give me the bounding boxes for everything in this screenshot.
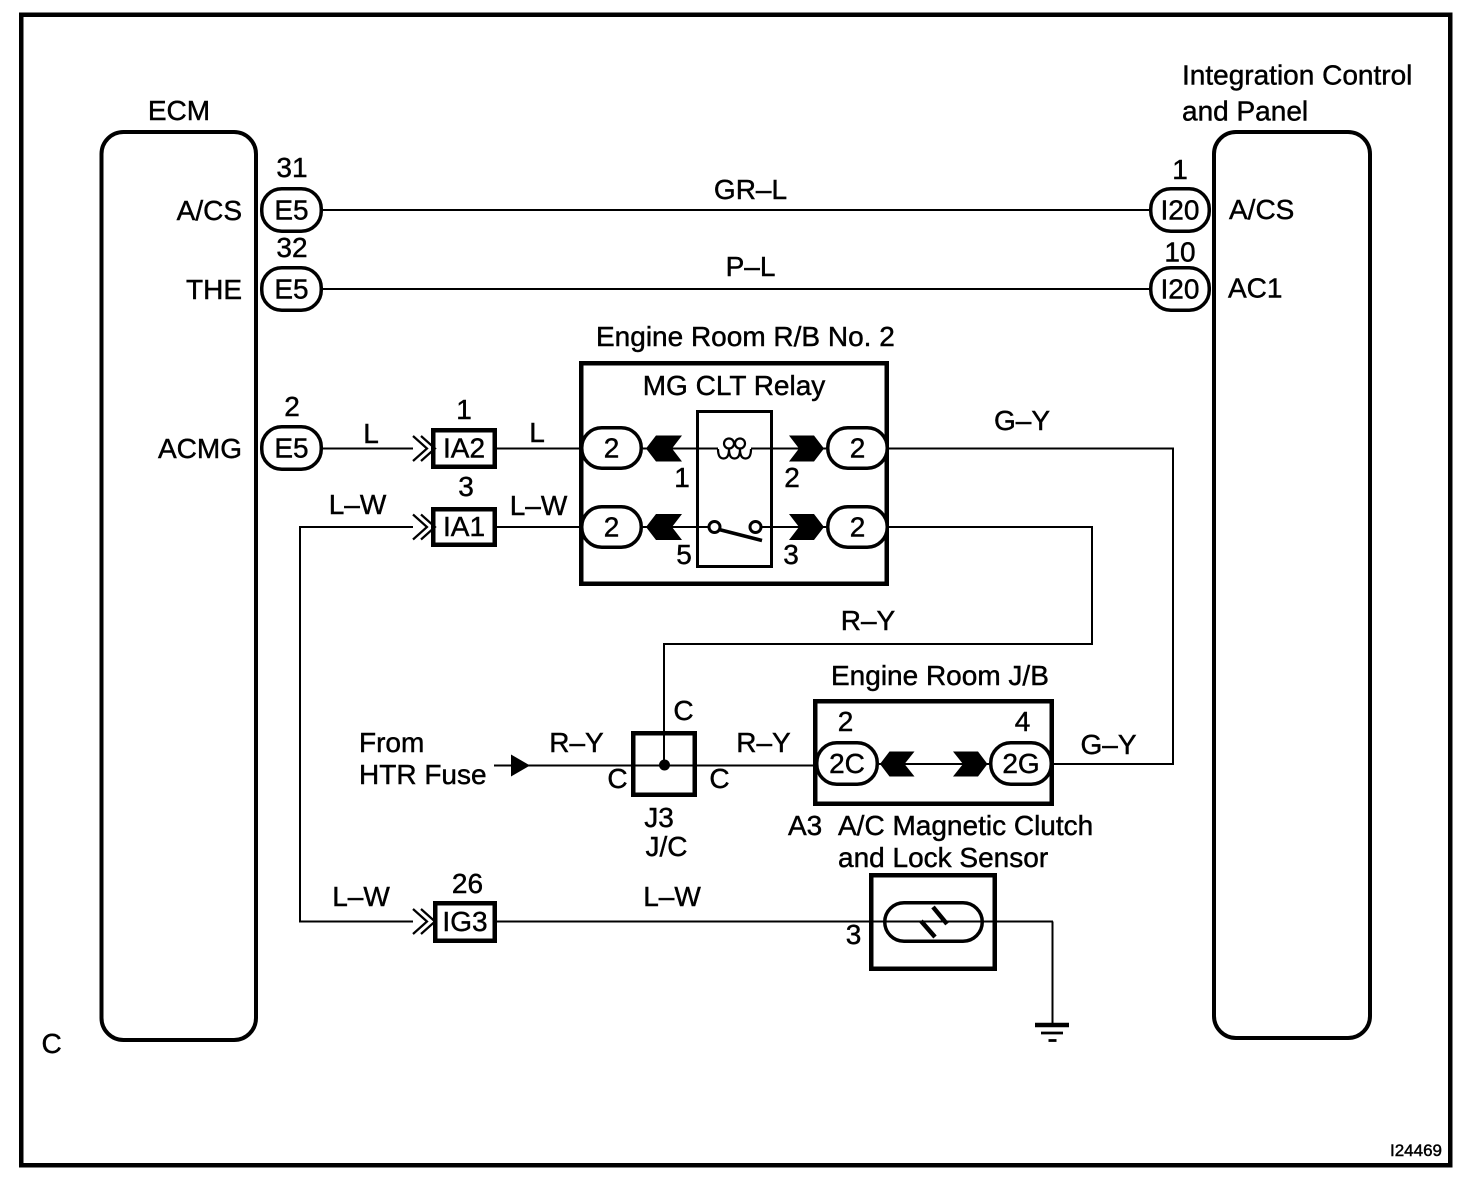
svg-text:1: 1: [674, 462, 690, 493]
svg-text:2: 2: [784, 462, 800, 493]
A/C magnetic clutch and lock sensor box: [871, 875, 995, 969]
J/B internal wire: [879, 763, 989, 765]
arrow marker left (coil row): [646, 436, 682, 462]
svg-text:3: 3: [783, 539, 799, 570]
sensor diagonal stroke 2: [933, 907, 947, 924]
relay connector oval 2 (top-left): [582, 428, 642, 469]
svg-text:I20: I20: [1161, 274, 1200, 305]
connector E5 pin 31: [262, 189, 322, 232]
ground symbol: [1035, 1023, 1069, 1028]
svg-text:L: L: [363, 418, 379, 449]
wire G-Y (relay pin2 to 2G / panel): [889, 449, 1173, 765]
svg-text:2C: 2C: [829, 748, 865, 779]
relay coil L1: [718, 449, 751, 459]
svg-text:E5: E5: [274, 433, 308, 464]
svg-text:L–W: L–W: [643, 881, 701, 912]
svg-text:Engine Room R/B No. 2: Engine Room R/B No. 2: [596, 321, 895, 352]
connector 2C: [817, 743, 878, 785]
svg-text:R–Y: R–Y: [736, 727, 791, 758]
svg-text:E5: E5: [274, 195, 308, 226]
svg-text:3: 3: [846, 919, 862, 950]
wire L-W (IG3 to sensor to ground): [497, 921, 1053, 923]
wire L-W (IA1 to relay): [497, 526, 581, 528]
svg-text:J3: J3: [644, 802, 674, 833]
relay switch blade: [719, 530, 762, 541]
svg-text:THE: THE: [186, 274, 242, 305]
arrow marker right (into 2G): [953, 752, 988, 777]
svg-text:A/C Magnetic Clutch: A/C Magnetic Clutch: [838, 810, 1093, 841]
svg-text:2G: 2G: [1002, 748, 1039, 779]
svg-text:A/CS: A/CS: [177, 195, 242, 226]
svg-text:C: C: [709, 763, 729, 794]
svg-text:IA1: IA1: [443, 511, 485, 542]
wire P-L (THE to I20): [323, 288, 1149, 290]
svg-text:2: 2: [604, 433, 620, 464]
svg-text:2: 2: [850, 512, 866, 543]
svg-text:R–Y: R–Y: [841, 605, 896, 636]
connector IA1: [433, 509, 495, 545]
svg-text:E5: E5: [274, 274, 308, 305]
svg-text:GR–L: GR–L: [714, 174, 787, 205]
relay switch feed wire (pin5 row): [643, 526, 711, 528]
svg-text:L–W: L–W: [332, 881, 390, 912]
relay connector oval 2 (bottom-left): [582, 507, 642, 548]
svg-text:and Lock Sensor: and Lock Sensor: [838, 842, 1048, 873]
wire GR-L (A/CS to I20): [323, 209, 1149, 211]
connector E5 pin 32: [262, 268, 322, 311]
svg-text:IG3: IG3: [442, 906, 487, 937]
MG CLT relay inner box: [698, 412, 772, 567]
svg-text:Engine Room J/B: Engine Room J/B: [831, 660, 1049, 691]
wire L (E5 ACMG to IA2): [323, 448, 413, 450]
svg-text:L–W: L–W: [510, 490, 568, 521]
connector IA2: [433, 430, 495, 467]
svg-text:L–W: L–W: [329, 489, 387, 520]
svg-text:MG CLT Relay: MG CLT Relay: [643, 370, 826, 401]
svg-text:5: 5: [676, 539, 692, 570]
svg-text:A/CS: A/CS: [1229, 194, 1294, 225]
connector E5 pin 2: [262, 427, 322, 470]
svg-text:P–L: P–L: [726, 251, 776, 282]
sensor diagonal stroke 1: [921, 921, 935, 937]
arrow marker right (coil row): [789, 436, 824, 462]
relay connector oval 2 (bottom-right): [828, 507, 888, 548]
wire L (IA2 to relay): [497, 448, 581, 450]
svg-text:ACMG: ACMG: [158, 433, 242, 464]
svg-text:A3: A3: [788, 810, 822, 841]
ground wire: [1052, 922, 1054, 1026]
relay coil feed wire (node through relay box, pin1 row): [643, 448, 718, 450]
Integration Control and Panel block: [1214, 132, 1370, 1038]
svg-text:2: 2: [838, 706, 854, 737]
svg-text:4: 4: [1015, 706, 1031, 737]
svg-text:1: 1: [456, 394, 472, 425]
wire R-Y (relay pin3 down to J3 junction): [664, 527, 1092, 765]
svg-text:AC1: AC1: [1228, 273, 1282, 304]
svg-text:I24469: I24469: [1390, 1141, 1442, 1160]
connector I20 pin 1: [1151, 189, 1210, 232]
arrow marker left (into 2C): [880, 752, 915, 777]
svg-text:G–Y: G–Y: [994, 405, 1050, 436]
svg-text:IA2: IA2: [443, 433, 485, 464]
junction dot node C: [659, 760, 670, 771]
svg-text:and Panel: and Panel: [1182, 96, 1308, 127]
wire L-W vertical from IA1 feed down to IG3 feed: [300, 527, 413, 922]
wire R-Y (HTR fuse to J3 and to 2C): [494, 765, 815, 767]
svg-text:32: 32: [276, 232, 307, 263]
splice chevrons IG3: [413, 909, 435, 934]
arrow marker right (switch row): [789, 514, 824, 540]
svg-text:C: C: [673, 695, 693, 726]
svg-text:31: 31: [276, 152, 307, 183]
svg-text:C: C: [607, 763, 627, 794]
svg-text:C: C: [42, 1028, 62, 1059]
svg-text:From: From: [359, 727, 424, 758]
ECM block U-ECM: [102, 132, 257, 1040]
svg-text:ECM: ECM: [148, 95, 210, 126]
splice chevrons IA2: [413, 436, 435, 461]
svg-text:2: 2: [850, 433, 866, 464]
svg-text:26: 26: [452, 868, 483, 899]
splice chevrons IA1: [413, 515, 435, 540]
svg-text:L: L: [529, 417, 545, 448]
relay switch contact left: [709, 522, 720, 533]
relay switch contact right: [750, 522, 761, 533]
connector IG3: [435, 903, 495, 941]
Engine Room J/B block: [815, 701, 1052, 804]
svg-text:1: 1: [1172, 154, 1188, 185]
svg-text:10: 10: [1164, 237, 1195, 268]
svg-text:Integration Control: Integration Control: [1182, 60, 1412, 91]
svg-text:I20: I20: [1161, 195, 1200, 226]
svg-text:3: 3: [458, 471, 474, 502]
connector 2G: [991, 743, 1052, 785]
junction block J3 box: [633, 733, 695, 795]
svg-text:2: 2: [604, 512, 620, 543]
svg-text:HTR Fuse: HTR Fuse: [359, 759, 487, 790]
relay connector oval 2 (top-right): [828, 428, 888, 469]
svg-text:G–Y: G–Y: [1080, 729, 1136, 760]
arrow marker left (switch row): [646, 514, 682, 540]
Engine Room R/B No.2 block: [581, 363, 887, 584]
connector I20 pin 10: [1151, 268, 1210, 311]
svg-text:R–Y: R–Y: [549, 727, 604, 758]
HTR fuse feed arrow: [511, 755, 530, 777]
svg-text:2: 2: [284, 391, 300, 422]
svg-text:J/C: J/C: [646, 831, 688, 862]
sensor capsule: [885, 903, 983, 942]
